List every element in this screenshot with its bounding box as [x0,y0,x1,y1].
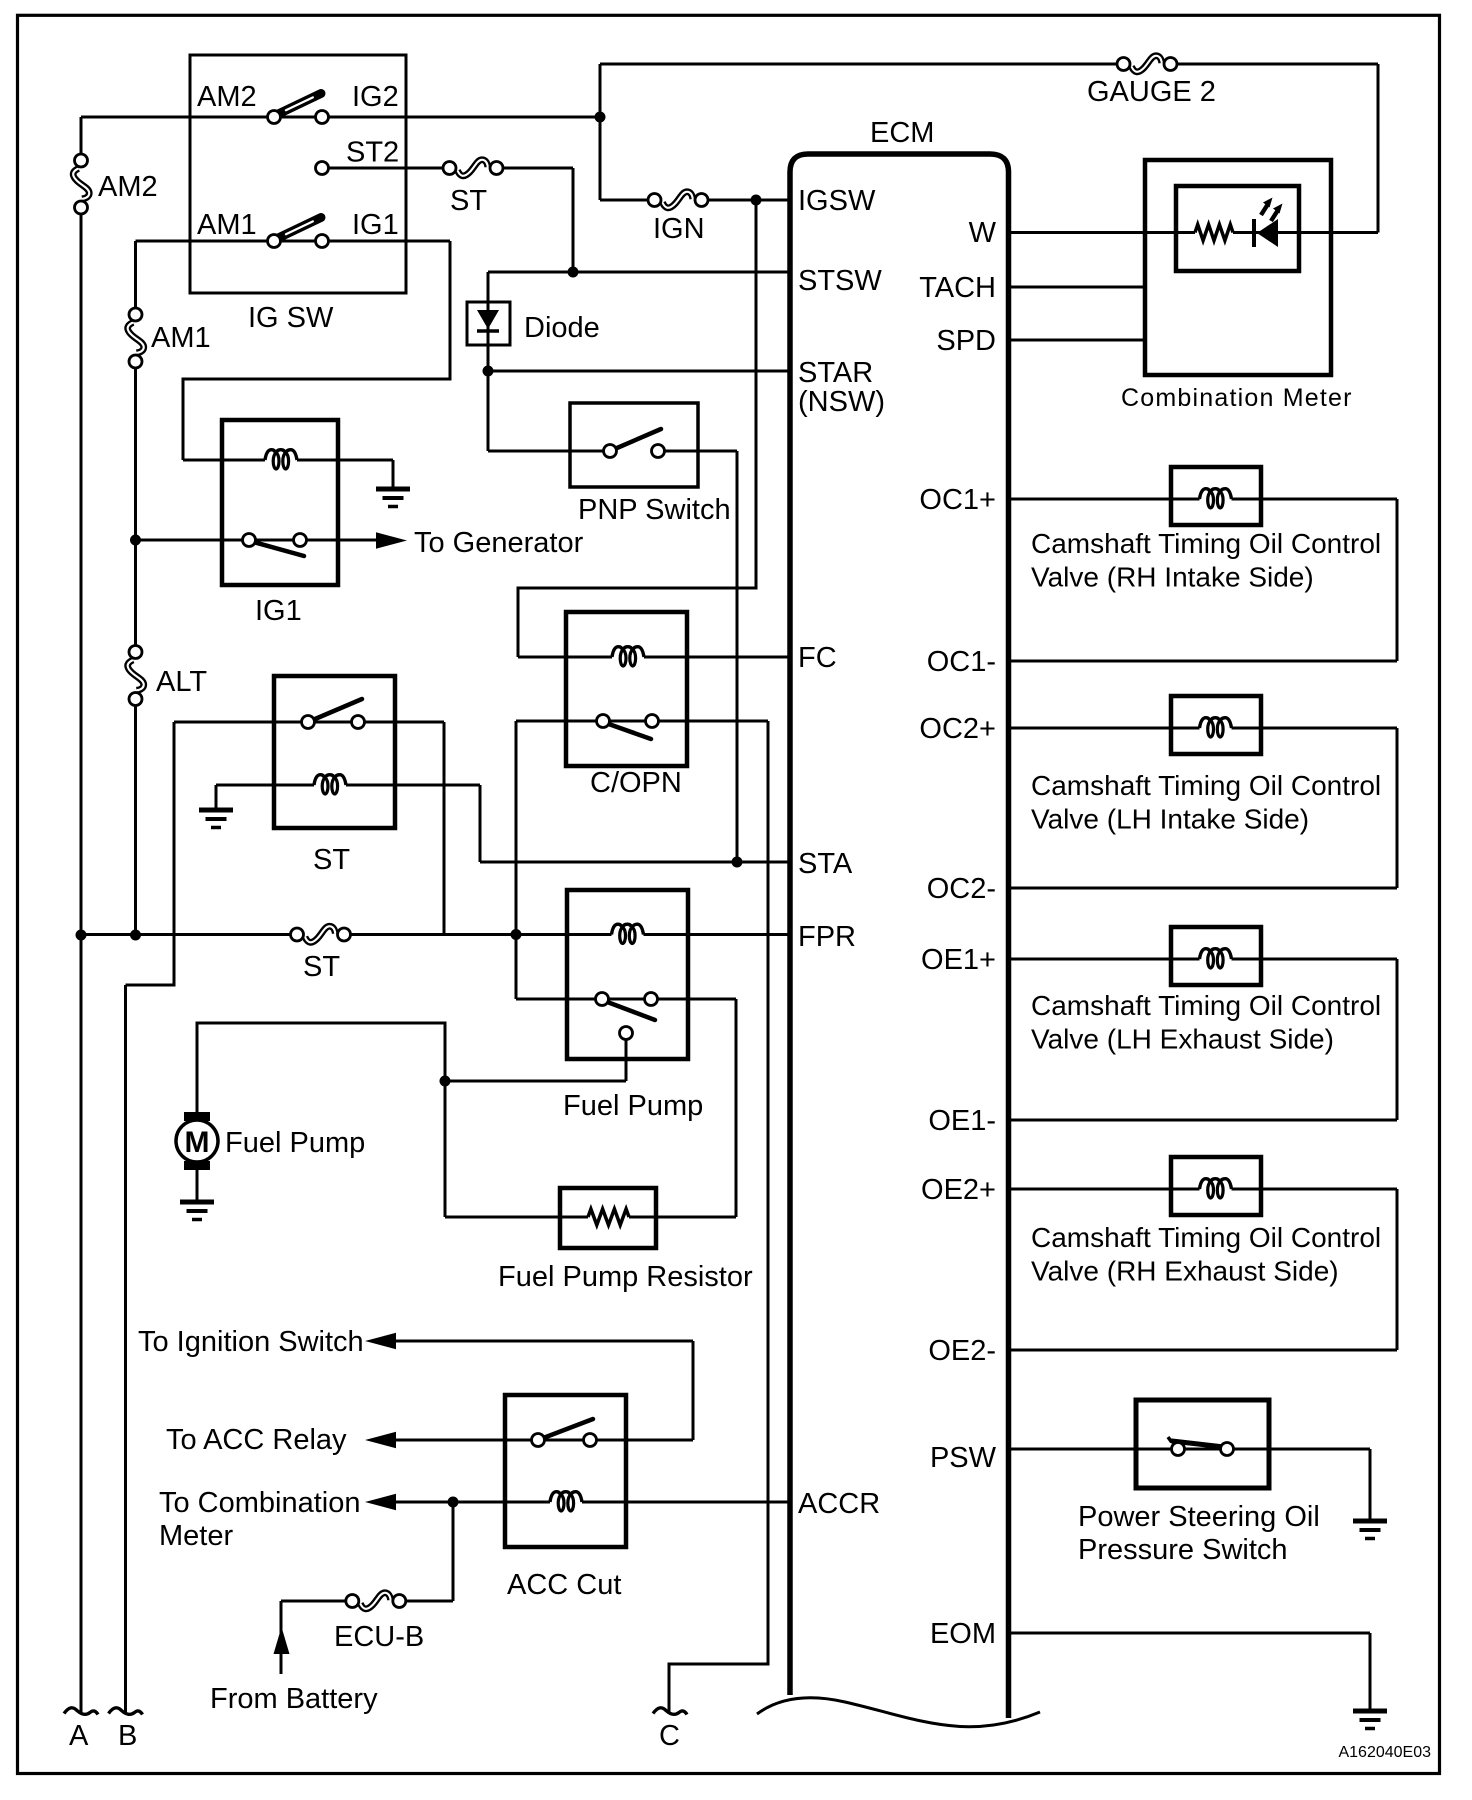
svg-text:TACH: TACH [919,272,996,304]
svg-text:ST: ST [313,844,350,876]
svg-text:OE2-: OE2- [928,1335,996,1367]
svg-text:SPD: SPD [936,325,996,357]
svg-text:PSW: PSW [930,1442,997,1474]
svg-text:FC: FC [798,642,837,674]
svg-text:Camshaft Timing Oil Control: Camshaft Timing Oil Control [1031,770,1381,801]
svg-text:ACC Cut: ACC Cut [507,1569,621,1601]
svg-text:To Ignition Switch: To Ignition Switch [138,1326,364,1358]
svg-text:OC2+: OC2+ [919,713,996,745]
svg-text:IG2: IG2 [352,81,399,113]
svg-text:Fuel Pump: Fuel Pump [563,1090,703,1122]
svg-text:PNP Switch: PNP Switch [578,494,731,526]
svg-text:To Generator: To Generator [414,527,584,559]
svg-text:OC1+: OC1+ [919,484,996,516]
svg-text:ALT: ALT [156,666,207,698]
svg-text:OC2-: OC2- [927,873,996,905]
svg-text:OE1-: OE1- [928,1105,996,1137]
svg-text:C/OPN: C/OPN [590,767,682,799]
svg-text:OC1-: OC1- [927,646,996,678]
svg-text:AM1: AM1 [151,322,211,354]
svg-text:AM1: AM1 [197,209,257,241]
svg-text:IG1: IG1 [352,209,399,241]
svg-text:A162040E03: A162040E03 [1338,1744,1431,1761]
svg-text:From Battery: From Battery [210,1683,378,1715]
svg-text:AM2: AM2 [197,81,257,113]
svg-text:To Combination: To Combination [159,1487,361,1519]
svg-text:EOM: EOM [930,1618,996,1650]
svg-text:Valve (LH Intake Side): Valve (LH Intake Side) [1031,804,1309,835]
svg-text:OE2+: OE2+ [921,1174,996,1206]
svg-text:Diode: Diode [524,312,600,344]
svg-text:STSW: STSW [798,265,882,297]
svg-text:Valve (LH Exhaust Side): Valve (LH Exhaust Side) [1031,1024,1334,1055]
svg-text:Fuel Pump: Fuel Pump [225,1127,365,1159]
svg-text:ST: ST [450,185,487,217]
svg-text:To ACC Relay: To ACC Relay [166,1424,347,1456]
svg-text:M: M [185,1126,210,1159]
svg-text:ECM: ECM [870,117,934,149]
svg-text:(NSW): (NSW) [798,386,885,418]
svg-text:FPR: FPR [798,921,856,953]
svg-text:IG1: IG1 [255,595,302,627]
svg-text:AM2: AM2 [98,171,158,203]
svg-text:GAUGE 2: GAUGE 2 [1087,76,1216,108]
svg-text:W: W [969,217,997,249]
svg-text:Camshaft Timing Oil Control: Camshaft Timing Oil Control [1031,528,1381,559]
svg-text:IGN: IGN [653,213,705,245]
svg-text:OE1+: OE1+ [921,944,996,976]
svg-text:Combination Meter: Combination Meter [1121,384,1353,412]
svg-text:Power Steering Oil: Power Steering Oil [1078,1501,1320,1533]
svg-text:Valve (RH Intake Side): Valve (RH Intake Side) [1031,562,1314,593]
svg-text:STAR: STAR [798,357,873,389]
svg-text:B: B [118,1720,137,1752]
svg-text:Pressure Switch: Pressure Switch [1078,1534,1288,1566]
svg-text:A: A [69,1720,89,1752]
svg-text:ST2: ST2 [346,137,399,169]
svg-text:Meter: Meter [159,1520,233,1552]
svg-text:ECU-B: ECU-B [334,1621,424,1653]
svg-text:Fuel Pump Resistor: Fuel Pump Resistor [498,1261,753,1293]
svg-text:ACCR: ACCR [798,1488,880,1520]
svg-text:Camshaft Timing Oil Control: Camshaft Timing Oil Control [1031,1222,1381,1253]
svg-text:Valve (RH Exhaust Side): Valve (RH Exhaust Side) [1031,1256,1339,1287]
svg-text:ST: ST [303,951,340,983]
svg-text:IGSW: IGSW [798,185,876,217]
svg-text:IG SW: IG SW [248,302,334,334]
svg-text:C: C [659,1720,680,1752]
svg-text:STA: STA [798,848,853,880]
svg-text:Camshaft Timing Oil Control: Camshaft Timing Oil Control [1031,990,1381,1021]
